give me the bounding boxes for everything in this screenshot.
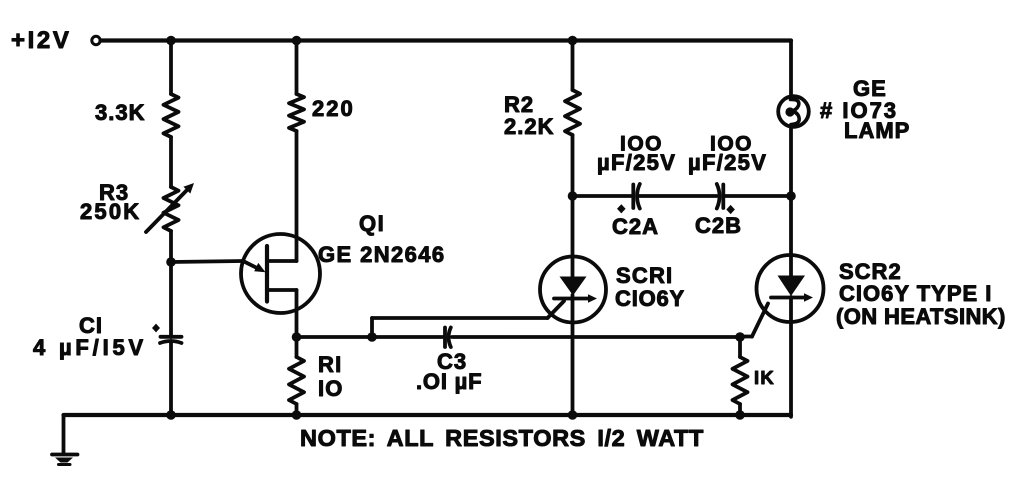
svg-text:µF/25V: µF/25V [688, 150, 767, 175]
svg-text:4 µF/I5V: 4 µF/I5V [33, 335, 147, 360]
svg-text:QI: QI [359, 211, 385, 236]
svg-text:.OI µF: .OI µF [416, 369, 482, 394]
svg-text:250K: 250K [80, 199, 141, 224]
svg-text:C2B: C2B [695, 213, 742, 238]
svg-text:GE 2N2646: GE 2N2646 [318, 242, 446, 267]
svg-text:LAMP: LAMP [844, 118, 910, 143]
svg-text:µF/25V: µF/25V [597, 150, 676, 175]
svg-text:IK: IK [754, 367, 775, 388]
svg-text:CIO6Y TYPE I: CIO6Y TYPE I [839, 281, 992, 306]
svg-text:NOTE: ALL RESISTORS I/2 WAT: NOTE: ALL RESISTORS I/2 WATT [300, 425, 704, 451]
svg-text:RI: RI [318, 352, 342, 377]
svg-text:(ON HEATSINK): (ON HEATSINK) [836, 304, 1006, 329]
svg-text:CIO6Y: CIO6Y [615, 286, 685, 311]
svg-text:2.2K: 2.2K [504, 114, 554, 139]
svg-text:3.3K: 3.3K [95, 100, 145, 125]
svg-text:+I2V: +I2V [11, 27, 71, 54]
svg-text:C2A: C2A [612, 214, 659, 239]
svg-text:220: 220 [312, 96, 355, 121]
svg-text:IO: IO [318, 376, 344, 401]
svg-text:SCRI: SCRI [616, 263, 673, 288]
